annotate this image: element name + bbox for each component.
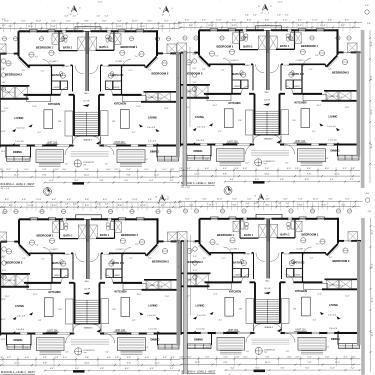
svg-text:5'-0": 5'-0" (193, 270, 197, 272)
svg-text:5'-4": 5'-4" (307, 168, 311, 170)
svg-text:3'-2": 3'-2" (163, 357, 167, 359)
svg-text:5'-0": 5'-0" (193, 54, 197, 56)
svg-text:6: 6 (270, 6, 271, 8)
svg-text:4: 4 (77, 14, 78, 16)
north arrow compass top-left plan (67, 6, 80, 16)
svg-text:10'-2": 10'-2" (1, 131, 6, 133)
svg-text:5'-6": 5'-6" (21, 20, 26, 22)
svg-text:9'-8": 9'-8" (126, 175, 130, 177)
svg-text:9'-8": 9'-8" (298, 204, 303, 206)
svg-text:5'-0": 5'-0" (2, 256, 6, 258)
svg-text:10'-2": 10'-2" (1, 319, 6, 321)
svg-text:9'-2": 9'-2" (164, 20, 169, 22)
svg-text:3'-2": 3'-2" (162, 169, 166, 171)
svg-text:6'-0": 6'-0" (283, 199, 288, 201)
svg-text:5'-8": 5'-8" (85, 357, 89, 359)
svg-text:5'-4": 5'-4" (126, 169, 130, 171)
svg-text:9'-8": 9'-8" (232, 204, 237, 206)
svg-text:9'-8": 9'-8" (127, 363, 131, 365)
svg-text:6'-4": 6'-4" (230, 179, 234, 181)
svg-text:9'-8": 9'-8" (223, 174, 227, 176)
svg-text:16'-0": 16'-0" (84, 363, 90, 365)
svg-text:12'-6": 12'-6" (140, 205, 146, 207)
quadrant top-right plan (176, 15, 361, 195)
matchline band right top (361, 30, 365, 188)
svg-text:2'-8": 2'-8" (296, 356, 300, 358)
svg-text:8'-0": 8'-0" (75, 368, 79, 370)
svg-text:6'-4": 6'-4" (50, 368, 54, 370)
svg-text:9'-2": 9'-2" (345, 19, 350, 21)
svg-text:5'-8": 5'-8" (85, 199, 90, 201)
svg-text:5'-8": 5'-8" (265, 356, 269, 358)
svg-text:8'-0": 8'-0" (305, 179, 309, 181)
svg-text:6'-0": 6'-0" (205, 356, 209, 358)
svg-text:5'-4": 5'-4" (52, 199, 57, 201)
svg-text:5'-4": 5'-4" (42, 169, 46, 171)
svg-text:2'-8": 2'-8" (235, 168, 239, 170)
svg-text:6'-0": 6'-0" (247, 19, 252, 21)
svg-text:12: 12 (257, 202, 259, 204)
svg-text:12'-2": 12'-2" (334, 174, 340, 176)
svg-text:4'-0": 4'-0" (62, 169, 66, 171)
svg-text:9'-8": 9'-8" (307, 362, 311, 364)
svg-text:6'-0": 6'-0" (325, 356, 329, 358)
svg-text:6: 6 (79, 8, 80, 10)
svg-text:2'-8": 2'-8" (236, 356, 240, 358)
svg-text:22'-4": 22'-4" (98, 2, 103, 4)
svg-text:10'-2": 10'-2" (372, 297, 374, 302)
svg-text:4: 4 (264, 202, 265, 204)
svg-text:5'-8": 5'-8" (265, 19, 270, 21)
svg-text:5'-4": 5'-4" (223, 168, 227, 170)
svg-text:3'-2": 3'-2" (2, 213, 6, 215)
svg-text:6: 6 (167, 197, 168, 199)
svg-text:5'-0": 5'-0" (193, 256, 197, 258)
svg-text:2'-8": 2'-8" (179, 168, 183, 170)
window tag row bottom-left plan (3, 209, 7, 213)
svg-text:2'-8": 2'-8" (115, 357, 119, 359)
svg-text:5'-4": 5'-4" (127, 357, 131, 359)
svg-text:5'-0": 5'-0" (2, 68, 6, 70)
svg-text:10'-2": 10'-2" (372, 331, 374, 336)
svg-text:11'-0": 11'-0" (216, 19, 222, 21)
window tag row bottom-right plan (183, 209, 187, 213)
svg-text:16'-0": 16'-0" (264, 174, 270, 176)
svg-text:9'-8": 9'-8" (117, 26, 122, 28)
svg-text:3'-2": 3'-2" (2, 25, 6, 27)
svg-text:6'-4": 6'-4" (50, 180, 54, 182)
svg-text:6: 6 (266, 196, 267, 198)
svg-text:8'-0": 8'-0" (125, 180, 129, 182)
svg-text:3'-2": 3'-2" (2, 207, 6, 209)
svg-text:5'-4": 5'-4" (223, 356, 227, 358)
svg-text:5'-6": 5'-6" (328, 199, 333, 201)
svg-text:6'-0": 6'-0" (66, 20, 71, 22)
window tag row top-left plan (2, 37, 6, 41)
svg-text:10'-2": 10'-2" (371, 143, 373, 148)
svg-text:12'-6": 12'-6" (208, 25, 214, 27)
svg-text:3'-2": 3'-2" (170, 180, 174, 182)
svg-text:3'-2": 3'-2" (350, 179, 354, 181)
svg-text:6: 6 (171, 8, 172, 10)
svg-text:8'-0": 8'-0" (265, 25, 270, 27)
svg-text:22'-4": 22'-4" (278, 2, 283, 4)
svg-text:5'-8": 5'-8" (265, 199, 270, 201)
svg-text:5'-6": 5'-6" (202, 199, 207, 201)
svg-text:6'-0": 6'-0" (145, 357, 149, 359)
svg-text:6'-0": 6'-0" (24, 169, 28, 171)
svg-text:6'-0": 6'-0" (325, 168, 329, 170)
svg-text:5'-6": 5'-6" (328, 19, 333, 21)
right edge dim line top (369, 30, 371, 183)
svg-text:12'-2": 12'-2" (154, 175, 160, 177)
svg-text:5'-6": 5'-6" (202, 19, 207, 21)
svg-text:6'-0": 6'-0" (102, 20, 107, 22)
svg-text:9'-8": 9'-8" (118, 205, 123, 207)
svg-text:6'-0": 6'-0" (247, 199, 252, 201)
svg-text:5'-4": 5'-4" (51, 20, 56, 22)
svg-text:10'-2": 10'-2" (371, 41, 373, 46)
north arrow compass top-center (159, 6, 172, 16)
svg-text:4'-0": 4'-0" (106, 169, 110, 171)
svg-text:12'-6": 12'-6" (28, 26, 34, 28)
svg-text:5'-6": 5'-6" (147, 20, 152, 22)
svg-text:4'-0": 4'-0" (63, 357, 67, 359)
svg-text:4'-0": 4'-0" (365, 5, 369, 7)
svg-text:2'-8": 2'-8" (55, 169, 59, 171)
svg-text:4'-0": 4'-0" (243, 356, 247, 358)
svg-text:10'-2": 10'-2" (1, 299, 6, 301)
svg-text:5'-0": 5'-0" (2, 270, 6, 272)
svg-text:5'-4": 5'-4" (298, 19, 303, 21)
svg-text:12: 12 (162, 14, 164, 16)
svg-text:10'-2": 10'-2" (371, 109, 373, 114)
svg-text:3'-2": 3'-2" (2, 19, 6, 21)
svg-text:9'-2": 9'-2" (185, 199, 190, 201)
svg-text:9'-2": 9'-2" (345, 199, 350, 201)
svg-text:2'-8": 2'-8" (180, 356, 184, 358)
svg-text:8'-0": 8'-0" (75, 180, 79, 182)
window tag row top-right plan (183, 36, 187, 40)
svg-text:3'-2": 3'-2" (187, 168, 191, 170)
svg-text:9'-8": 9'-8" (42, 175, 46, 177)
svg-text:8'-0": 8'-0" (256, 368, 260, 370)
svg-text:5'-0": 5'-0" (193, 242, 197, 244)
svg-text:2'-8": 2'-8" (0, 357, 3, 359)
svg-text:8'-0": 8'-0" (265, 204, 270, 206)
svg-text:12'-2": 12'-2" (154, 363, 160, 365)
svg-text:9'-2": 9'-2" (185, 19, 190, 21)
svg-text:5'-6": 5'-6" (22, 199, 27, 201)
svg-text:5'-0": 5'-0" (2, 82, 6, 84)
svg-text:3'-2": 3'-2" (343, 168, 347, 170)
svg-text:9'-2": 9'-2" (165, 199, 170, 201)
svg-text:3'-2": 3'-2" (6, 169, 10, 171)
svg-text:4: 4 (165, 203, 166, 205)
svg-text:5'-8": 5'-8" (265, 168, 269, 170)
svg-text:10'-2": 10'-2" (372, 229, 374, 234)
svg-text:12: 12 (70, 14, 72, 16)
svg-text:12'-2": 12'-2" (14, 363, 20, 365)
svg-text:12: 12 (261, 12, 263, 14)
svg-text:6'-0": 6'-0" (205, 168, 209, 170)
svg-text:3'-2": 3'-2" (351, 368, 355, 370)
svg-text:9'-8": 9'-8" (52, 205, 57, 207)
svg-text:2'-8": 2'-8" (367, 23, 371, 25)
svg-text:3'-2": 3'-2" (187, 356, 191, 358)
svg-text:5'-6": 5'-6" (148, 199, 153, 201)
svg-text:10'-2": 10'-2" (1, 339, 6, 341)
svg-text:11'-0": 11'-0" (36, 199, 42, 201)
right edge tag circle top (365, 10, 369, 14)
right edge dim line bottom (370, 218, 372, 372)
svg-text:8'-0": 8'-0" (255, 179, 259, 181)
svg-text:11'-0": 11'-0" (313, 199, 319, 201)
svg-text:5'-8": 5'-8" (84, 20, 89, 22)
svg-text:16'-0": 16'-0" (84, 175, 90, 177)
svg-text:10'-2": 10'-2" (371, 75, 373, 80)
svg-text:5'-4": 5'-4" (117, 20, 122, 22)
svg-text:11'-0": 11'-0" (312, 19, 318, 21)
svg-text:6'-4": 6'-4" (330, 179, 334, 181)
svg-text:12'-6": 12'-6" (320, 25, 326, 27)
svg-text:2'-8": 2'-8" (115, 169, 119, 171)
svg-text:12'-6": 12'-6" (140, 26, 146, 28)
svg-text:4'-0": 4'-0" (287, 356, 291, 358)
svg-text:6'-4": 6'-4" (331, 368, 335, 370)
svg-text:6'-4": 6'-4" (150, 180, 154, 182)
svg-text:4'-0": 4'-0" (107, 357, 111, 359)
svg-text:10'-2": 10'-2" (372, 263, 374, 268)
svg-text:5'-8": 5'-8" (100, 368, 104, 370)
svg-text:9'-8": 9'-8" (43, 363, 47, 365)
svg-text:10'-2": 10'-2" (1, 151, 6, 153)
svg-text:10'-2": 10'-2" (1, 111, 6, 113)
svg-text:5'-8": 5'-8" (280, 179, 284, 181)
svg-text:8'-0": 8'-0" (84, 26, 89, 28)
svg-text:11'-0": 11'-0" (132, 20, 138, 22)
svg-text:6'-0": 6'-0" (25, 357, 29, 359)
svg-text:5'-4": 5'-4" (232, 199, 237, 201)
matchline band right bottom (361, 218, 365, 375)
svg-text:11'-0": 11'-0" (36, 20, 42, 22)
svg-text:4'-0": 4'-0" (243, 168, 247, 170)
north arrow compass bottom-left plan (155, 195, 168, 205)
svg-text:6'-0": 6'-0" (283, 19, 288, 21)
svg-text:16'-0": 16'-0" (265, 362, 271, 364)
svg-text:12: 12 (158, 203, 160, 205)
svg-text:8'-0": 8'-0" (306, 368, 310, 370)
svg-text:5'-8": 5'-8" (100, 180, 104, 182)
svg-text:4: 4 (268, 12, 269, 14)
svg-text:5'-4": 5'-4" (43, 357, 47, 359)
svg-text:12'-2": 12'-2" (194, 174, 200, 176)
matchline band center bottom (184, 240, 187, 374)
svg-text:5'-0": 5'-0" (2, 242, 6, 244)
svg-text:3'-2": 3'-2" (343, 356, 347, 358)
svg-text:5'-0": 5'-0" (193, 68, 197, 70)
svg-text:5'-0": 5'-0" (193, 82, 197, 84)
svg-text:5'-4": 5'-4" (298, 199, 303, 201)
svg-text:12'-2": 12'-2" (335, 362, 341, 364)
svg-text:3'-2": 3'-2" (7, 357, 11, 359)
svg-text:5'-8": 5'-8" (281, 368, 285, 370)
svg-text:12'-6": 12'-6" (28, 205, 34, 207)
svg-text:2'-8": 2'-8" (55, 357, 59, 359)
svg-text:9'-8": 9'-8" (307, 174, 311, 176)
svg-text:2'-8": 2'-8" (295, 168, 299, 170)
svg-text:4'-0": 4'-0" (366, 193, 370, 195)
svg-text:11'-0": 11'-0" (217, 199, 223, 201)
svg-text:12'-6": 12'-6" (209, 204, 215, 206)
svg-text:5'-8": 5'-8" (84, 169, 88, 171)
svg-text:5'-4": 5'-4" (307, 356, 311, 358)
svg-text:12'-2": 12'-2" (14, 175, 20, 177)
svg-text:6'-0": 6'-0" (144, 169, 148, 171)
svg-text:9'-8": 9'-8" (223, 362, 227, 364)
north arrow compass bottom-right plan (254, 194, 267, 204)
svg-text:12'-6": 12'-6" (321, 204, 327, 206)
matchline band center top (183, 52, 186, 186)
quadrant top-left plan (0, 16, 180, 196)
svg-text:6'-4": 6'-4" (150, 368, 154, 370)
svg-text:4: 4 (169, 14, 170, 16)
svg-text:5'-4": 5'-4" (232, 19, 237, 21)
svg-text:5'-0": 5'-0" (2, 54, 6, 56)
svg-text:12'-2": 12'-2" (195, 362, 201, 364)
svg-text:11'-0": 11'-0" (132, 199, 138, 201)
svg-text:9'-8": 9'-8" (298, 25, 303, 27)
north arrow compass top-right plan (258, 4, 271, 14)
svg-text:2'-8": 2'-8" (0, 169, 3, 171)
svg-text:9'-2": 9'-2" (5, 199, 10, 201)
svg-text:8'-0": 8'-0" (125, 368, 129, 370)
quadrant bottom-right plan (177, 203, 362, 375)
svg-text:8'-0": 8'-0" (85, 205, 90, 207)
svg-text:4'-0": 4'-0" (287, 168, 291, 170)
svg-text:9'-8": 9'-8" (232, 25, 237, 27)
svg-text:9'-8": 9'-8" (51, 26, 56, 28)
svg-text:5'-4": 5'-4" (118, 199, 123, 201)
svg-text:6'-0": 6'-0" (67, 199, 72, 201)
svg-text:3'-2": 3'-2" (170, 368, 174, 370)
svg-text:6'-0": 6'-0" (103, 199, 108, 201)
svg-text:2'-8": 2'-8" (368, 211, 372, 213)
right edge tag circle bottom (365, 198, 369, 202)
quadrant bottom-left plan (0, 204, 181, 375)
svg-text:6'-4": 6'-4" (231, 368, 235, 370)
